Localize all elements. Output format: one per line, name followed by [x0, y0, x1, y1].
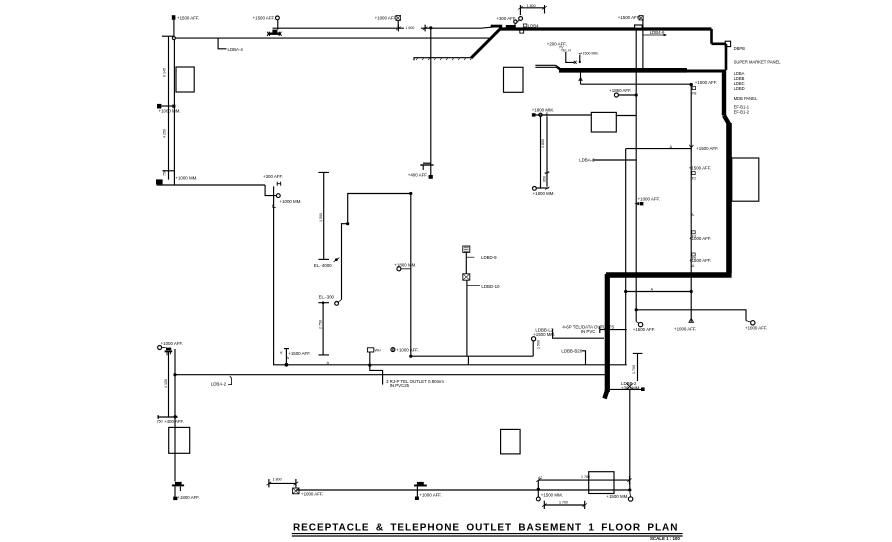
- wire vertical x691: [690, 85, 692, 318]
- label LDB4-6 leader: [643, 34, 664, 36]
- svg-text:SCALE 1 : 100: SCALE 1 : 100: [650, 536, 680, 541]
- svg-text:1 800: 1 800: [527, 4, 536, 8]
- svg-text:750: 750: [163, 170, 167, 176]
- circle +1000 AFF.: [391, 348, 395, 352]
- svg-text:+1000 MM.: +1000 MM.: [159, 109, 181, 114]
- device cluster top: [166, 348, 171, 351]
- wire T drop: [277, 20, 279, 30]
- label LDBD-10 leader: [467, 285, 480, 287]
- svg-text:+200 AFF.: +200 AFF.: [547, 41, 567, 46]
- wire step down: [265, 185, 276, 196]
- device fixture: [272, 30, 277, 33]
- node circle at main line: [172, 37, 175, 40]
- receptacle circle: [276, 194, 280, 198]
- svg-text:LDBD-9: LDBD-9: [481, 255, 497, 260]
- svg-text:LDBD-10: LDBD-10: [481, 284, 500, 289]
- wire horizontal y364.8 long: [274, 364, 627, 366]
- dim 1700 below: [544, 501, 584, 509]
- wire vertical x629.8: [629, 390, 631, 490]
- svg-text:+1000 AFF.: +1000 AFF.: [301, 491, 323, 496]
- svg-text:IN PVC: IN PVC: [581, 329, 596, 334]
- svg-text:1 800: 1 800: [273, 478, 282, 482]
- wire main horizontal y374.7: [175, 374, 606, 376]
- label 1600: [404, 24, 421, 29]
- svg-text:+1500 AFF.: +1500 AFF.: [689, 258, 711, 263]
- svg-text:◂+1500 MM.: ◂+1500 MM.: [579, 51, 599, 55]
- tick at y417: [158, 416, 178, 418]
- wire drop from box: [397, 20, 399, 27]
- svg-text:+1500 MM.: +1500 MM.: [541, 493, 563, 498]
- svg-text:+1500 AFF.: +1500 AFF.: [689, 166, 711, 171]
- device LDBD-9: [463, 246, 470, 252]
- device F8: [692, 87, 695, 90]
- door rectangle bottom-left: [169, 427, 190, 453]
- svg-text:+1500 AFF.: +1500 AFF.: [696, 146, 718, 151]
- outlet S1 top-left: [172, 15, 176, 20]
- leader 3 RJ-P: [370, 365, 383, 385]
- room rectangle mid: [591, 112, 616, 132]
- svg-text:+1500 AFF.: +1500 AFF.: [288, 351, 310, 356]
- receptacle circle below x636: [635, 310, 637, 322]
- leader TV/TEL: [566, 52, 574, 62]
- room rectangle right: [732, 158, 759, 201]
- device L: [273, 204, 276, 207]
- wall end diagonal: [605, 391, 608, 399]
- svg-text:+1000 AFF.: +1000 AFF.: [689, 236, 711, 241]
- wire riser x643: [642, 20, 644, 68]
- device D at x158: [157, 104, 161, 109]
- wall jog: [724, 116, 729, 125]
- svg-text:LDBA-2: LDBA-2: [211, 382, 227, 387]
- title underline: [292, 533, 683, 535]
- svg-text:+1500 AFF.: +1500 AFF.: [633, 327, 655, 332]
- label LDB4: [523, 24, 527, 27]
- svg-text:EF-B1-2: EF-B1-2: [734, 109, 750, 114]
- svg-text:+1000 MM.: +1000 MM.: [280, 199, 302, 204]
- device LDBD-10: [463, 274, 470, 280]
- dim 1800 top: [520, 5, 544, 15]
- wire vertical x625.7: [625, 149, 627, 365]
- leader LDBA-4: [218, 38, 226, 49]
- wall tick top-left: [162, 35, 175, 37]
- svg-text:+400 AFF.: +400 AFF.: [408, 173, 428, 178]
- wall left vertical: [168, 37, 170, 180]
- wire parallel vertical x174.4: [173, 40, 175, 185]
- node at x431: [429, 26, 432, 29]
- node dot: [409, 355, 412, 358]
- svg-text:+1000 AFF.: +1000 AFF.: [638, 196, 660, 201]
- wall band lower: [606, 272, 732, 277]
- svg-text:+1000 AFF.: +1000 AFF.: [695, 80, 717, 85]
- telephone circle T: [276, 16, 280, 20]
- svg-text:+400 AFF.: +400 AFF.: [164, 419, 184, 424]
- wire horizontal y291.5: [626, 291, 692, 293]
- svg-text:+1800 MM.: +1800 MM.: [532, 107, 554, 112]
- device at end of x431: [420, 164, 433, 166]
- wire horizontal y309.8: [636, 310, 746, 321]
- leader Z: [579, 55, 581, 62]
- dim bottom tick + slash: [318, 258, 329, 260]
- shelf line y57.7 with hatch: [414, 58, 471, 61]
- device at left end: [293, 488, 299, 494]
- svg-text:+1000 MM.: +1000 MM.: [175, 175, 197, 180]
- svg-text:EL.-4000: EL.-4000: [314, 263, 332, 268]
- device Y at y148: [689, 145, 693, 151]
- receptacle circle bottom-left: [158, 346, 162, 350]
- svg-text:+1850 AFF.: +1850 AFF.: [609, 88, 631, 93]
- wire T-drop x468.4: [467, 356, 469, 365]
- circle device on wall: [514, 20, 517, 23]
- wire bottom horizontal y490: [296, 489, 630, 491]
- svg-text:1 500: 1 500: [319, 213, 323, 222]
- bottom of dim: circle + ticks: [533, 187, 537, 191]
- wall band thick: [559, 68, 687, 73]
- device Y at x286: [284, 349, 289, 365]
- svg-text:6 145: 6 145: [163, 68, 167, 77]
- wire horizontal y148.6: [626, 148, 692, 150]
- device F5 +1500 AFF.: [692, 253, 695, 256]
- room rectangle bottom: [589, 472, 614, 494]
- wire long vertical x273.6: [273, 186, 275, 365]
- svg-text:LDBA-4: LDBA-4: [228, 47, 244, 52]
- wall corner step right: [712, 29, 727, 70]
- svg-text:+1000 AFF.: +1000 AFF.: [375, 16, 397, 21]
- wire wall to cluster: [610, 388, 644, 390]
- wire upper line y28.2: [273, 26, 500, 28]
- wire polyline EL drop: [348, 194, 411, 224]
- svg-text:+1500 AFF.: +1500 AFF.: [618, 15, 640, 20]
- svg-text:F2: F2: [692, 177, 696, 181]
- svg-text:+300 AFF.: +300 AFF.: [496, 16, 516, 21]
- dim column x323.7 upper: [318, 172, 329, 259]
- svg-text:+1500 MM.: +1500 MM.: [533, 332, 555, 337]
- svg-text:+1000 AFF.: +1000 AFF.: [419, 492, 441, 497]
- device M below band: [579, 78, 582, 81]
- svg-text:WH: WH: [375, 349, 381, 353]
- svg-text:+1000 AFF.: +1000 AFF.: [161, 341, 183, 346]
- svg-text:250: 250: [157, 419, 163, 423]
- device H: [277, 182, 281, 186]
- svg-text:+1800 MM.: +1800 MM.: [533, 191, 555, 196]
- svg-text:MDB PANEL: MDB PANEL: [734, 96, 758, 101]
- receptacle circle right: [751, 321, 755, 325]
- svg-text:+1000 AFF.: +1000 AFF.: [396, 347, 418, 352]
- svg-text:IN PVC25: IN PVC25: [390, 383, 410, 388]
- svg-text:1 500: 1 500: [537, 340, 541, 349]
- svg-text:+1000 AFF.: +1000 AFF.: [745, 325, 767, 330]
- outlet filled square at wall end: [156, 179, 163, 184]
- wall right upper: [722, 70, 726, 116]
- device WH: [367, 348, 373, 352]
- wire horizontal y115.5: [536, 114, 637, 117]
- devices at left of y115: [532, 113, 536, 116]
- svg-text:1 700: 1 700: [559, 501, 568, 505]
- label LDBD-9 leader: [466, 256, 474, 258]
- device M end: [689, 318, 694, 322]
- svg-text:4 800: 4 800: [541, 139, 545, 148]
- panel stub square DBPB: [725, 41, 730, 46]
- wall right main: [726, 123, 732, 273]
- wire horizontal y84.2: [581, 83, 692, 85]
- wire vertical x168.5 lower-left: [168, 352, 170, 417]
- svg-text:LDB4: LDB4: [528, 23, 540, 28]
- svg-text:RECEPTACLE & TELEPHONE OUTLET: RECEPTACLE & TELEPHONE OUTLET BASEMENT 1…: [293, 523, 678, 534]
- room rectangle top (super market): [504, 67, 524, 92]
- device block+bar mid: [417, 482, 424, 485]
- dim x637.5 with tick: [633, 353, 643, 381]
- riser LDBB-L2: [532, 341, 534, 356]
- wire horizontal y356.2: [411, 355, 533, 357]
- svg-text:4 150: 4 150: [164, 379, 168, 388]
- wire S1 drop: [173, 20, 175, 37]
- svg-text:LDBD: LDBD: [734, 86, 745, 91]
- dim verticals x540.5 x547: [541, 116, 548, 188]
- receptacle blocks on top wall: [491, 25, 503, 28]
- svg-text:EL.-300: EL.-300: [319, 294, 335, 299]
- svg-text:SUPER MARKET PANEL: SUPER MARKET PANEL: [734, 59, 782, 64]
- dim 1600 ticks: [398, 25, 425, 32]
- wire drop from band: [580, 73, 582, 85]
- svg-text:DBPB: DBPB: [734, 46, 746, 51]
- room rectangle bottom-middle: [501, 429, 520, 454]
- dim column x323.1 lower: [318, 303, 329, 355]
- device below wall: [520, 29, 524, 33]
- device box at +1000: [396, 15, 401, 20]
- wire vertical x636 from top wall: [635, 30, 637, 310]
- wire horizontal y185: [157, 184, 266, 186]
- wall diagonal thick: [471, 28, 501, 58]
- svg-text:2 750: 2 750: [318, 320, 322, 329]
- device block+bar at bottom: [175, 482, 182, 485]
- svg-text:+300 AFF.: +300 AFF.: [263, 174, 283, 179]
- node dot: [690, 83, 693, 86]
- svg-text:+1500 AFF.: +1500 AFF.: [177, 16, 199, 21]
- dim 1780 above: [538, 476, 629, 484]
- svg-text:1 780: 1 780: [581, 475, 590, 479]
- wall tick lower: [163, 170, 175, 172]
- svg-text:+1000 AFF.: +1000 AFF.: [674, 326, 696, 331]
- wire main top line y38: [175, 37, 489, 39]
- device F3 +1000 AFF.: [692, 231, 695, 234]
- label bracket: [553, 329, 604, 339]
- door rectangle left: [176, 67, 194, 92]
- svg-text:+1500 MM.: +1500 MM.: [606, 494, 628, 499]
- dim 1800 bottom-left: [269, 479, 296, 487]
- svg-text:F8: F8: [692, 92, 696, 96]
- wall double-line approach: [535, 65, 556, 67]
- svg-text:Y: Y: [280, 350, 283, 355]
- svg-text:1 600: 1 600: [405, 26, 414, 30]
- wall left vertical of lower room: [605, 274, 610, 392]
- wire vertical x175 lower-left: [174, 349, 176, 482]
- svg-text:950: 950: [543, 176, 547, 182]
- svg-text:LDB4-6: LDB4-6: [650, 30, 665, 35]
- svg-text:+1800 AFF.: +1800 AFF.: [177, 495, 199, 500]
- svg-text:1 700: 1 700: [632, 365, 636, 374]
- wire vertical x410.8: [410, 194, 412, 357]
- receptacle box on wall: [635, 25, 643, 28]
- wall top thick: [499, 27, 712, 30]
- wire vertical x431: [430, 28, 432, 176]
- receptacle circle at end: [628, 497, 632, 501]
- dim mid arrow: [545, 171, 550, 174]
- svg-text:LDBB-B20: LDBB-B20: [561, 348, 582, 353]
- svg-text:4 250: 4 250: [163, 129, 167, 138]
- svg-text:+1500 AFF.: +1500 AFF.: [253, 16, 275, 21]
